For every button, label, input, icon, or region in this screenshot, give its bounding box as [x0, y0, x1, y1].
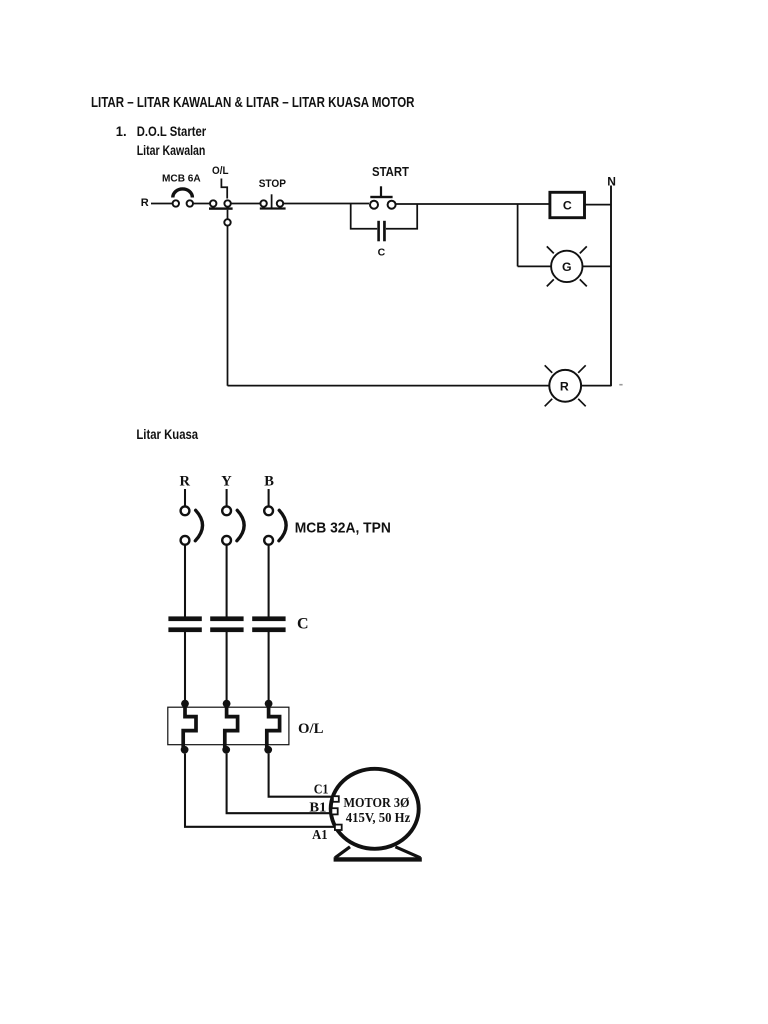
svg-text:MCB 32A, TPN: MCB 32A, TPN: [295, 520, 391, 536]
svg-text:MCB 6A: MCB 6A: [162, 173, 201, 184]
svg-text:R: R: [180, 474, 191, 490]
svg-text:D.O.L Starter: D.O.L Starter: [137, 123, 207, 139]
svg-text:R: R: [560, 379, 569, 393]
svg-text:A1: A1: [312, 827, 328, 842]
svg-text:B1: B1: [309, 799, 326, 814]
svg-text:B: B: [264, 474, 274, 490]
svg-text:Y: Y: [221, 474, 232, 490]
svg-text:LITAR – LITAR KAWALAN & LITAR: LITAR – LITAR KAWALAN & LITAR – LITAR KU…: [91, 94, 415, 111]
svg-text:O/L: O/L: [298, 721, 324, 737]
svg-text:N: N: [607, 174, 616, 188]
svg-text:1.: 1.: [116, 123, 127, 139]
svg-text:C1: C1: [314, 782, 329, 797]
svg-text:START: START: [372, 165, 409, 179]
svg-text:STOP: STOP: [259, 178, 286, 190]
svg-text:C: C: [378, 246, 386, 258]
svg-text:C: C: [297, 615, 309, 632]
svg-text:R: R: [141, 197, 149, 209]
svg-text:Litar Kuasa: Litar Kuasa: [136, 426, 198, 442]
svg-text:415V, 50 Hz: 415V, 50 Hz: [346, 811, 411, 826]
svg-text:MOTOR 3Ø: MOTOR 3Ø: [344, 796, 410, 811]
svg-text:C: C: [563, 199, 572, 213]
svg-text:O/L: O/L: [212, 165, 229, 177]
svg-text:Litar Kawalan: Litar Kawalan: [137, 142, 206, 158]
svg-text:G: G: [562, 260, 572, 274]
